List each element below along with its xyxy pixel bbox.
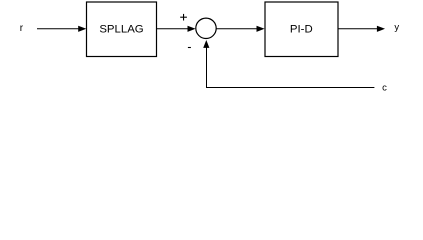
plus sign at summing junction [180,14,187,21]
node y (output label) [394,22,399,33]
svg-text:PI-D: PI-D [290,24,313,36]
block PI-D U2 [265,2,338,57]
svg-text:y: y [394,22,399,33]
wire summing junction to PI-D block [216,26,264,32]
svg-text:c: c [382,82,387,93]
svg-text:SPLLAG: SPLLAG [99,24,143,36]
wire r to SPLLAG block [37,26,86,32]
feedback wire vertical into summing junction [203,40,209,88]
svg-text:r: r [20,23,24,34]
summing junction [196,18,216,38]
block SPLLAG U1 [87,2,157,57]
feedback wire horizontal from c [206,87,374,89]
minus sign at summing junction [188,47,191,49]
wire SPLLAG to summing junction [157,26,196,32]
node c (feedback input label) [382,82,387,93]
node r (reference input label) [20,23,24,34]
wire PI-D to output y [338,26,385,32]
